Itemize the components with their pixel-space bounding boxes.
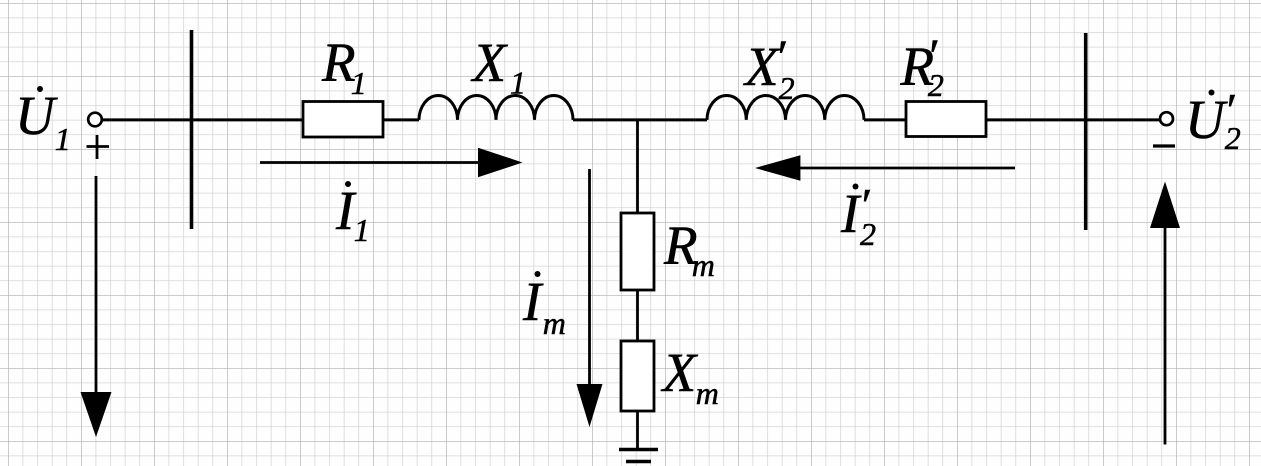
svg-text:′: ′ [859,180,871,233]
wire between X1 and X2 through center node [573,118,707,121]
label X1 [471,32,527,101]
label I2' [840,180,876,253]
right winding bar [1084,33,1088,230]
resistor R2' [906,102,986,137]
plus sign [87,135,110,159]
arrow U1 polarity down [81,176,112,437]
svg-text:′: ′ [926,30,938,83]
svg-text:1: 1 [510,65,526,101]
inductor X1 [419,95,573,119]
svg-text:U: U [1185,89,1228,150]
arrow I1 [260,148,523,178]
ground [619,450,658,462]
label R2' [900,30,944,103]
label Im [522,271,566,341]
resistor R1 [303,102,383,138]
arrow U2 polarity up [1150,182,1180,445]
label X2' [743,31,795,106]
wire from R2 to right terminal [986,118,1159,121]
wire between X2 and R2 [864,118,906,121]
svg-text:X: X [661,342,699,403]
svg-text:′: ′ [1224,85,1236,138]
center branch wire top [636,120,639,214]
svg-text:′: ′ [775,31,787,84]
svg-text:m: m [543,305,566,341]
resistor Rm [621,213,654,290]
svg-text:1: 1 [354,212,370,248]
wire from Xm to ground [636,411,639,449]
left terminal circle [88,113,102,127]
right terminal circle [1160,112,1173,125]
svg-text:m: m [696,375,719,411]
arrow I2' [755,155,1015,180]
svg-text:U: U [15,85,58,146]
label Xm [661,342,719,411]
svg-text:1: 1 [351,65,367,101]
arrow Im [577,169,603,427]
label I1 [335,180,370,248]
svg-text:I: I [522,271,544,332]
left winding bar [190,30,194,229]
minus sign [1153,144,1175,147]
inductor X2' [707,95,864,119]
label Rm [663,215,715,283]
label R1 [321,32,367,101]
wire between Rm and Xm [636,290,639,341]
svg-text:1: 1 [55,121,71,157]
wire main horizontal segment left [103,118,304,121]
label U2' [1185,85,1241,157]
wire between R1 and X1 [383,118,419,121]
svg-text:X: X [471,32,509,93]
resistor Xm [621,341,654,411]
label U1 [15,85,71,157]
svg-text:m: m [692,247,715,283]
